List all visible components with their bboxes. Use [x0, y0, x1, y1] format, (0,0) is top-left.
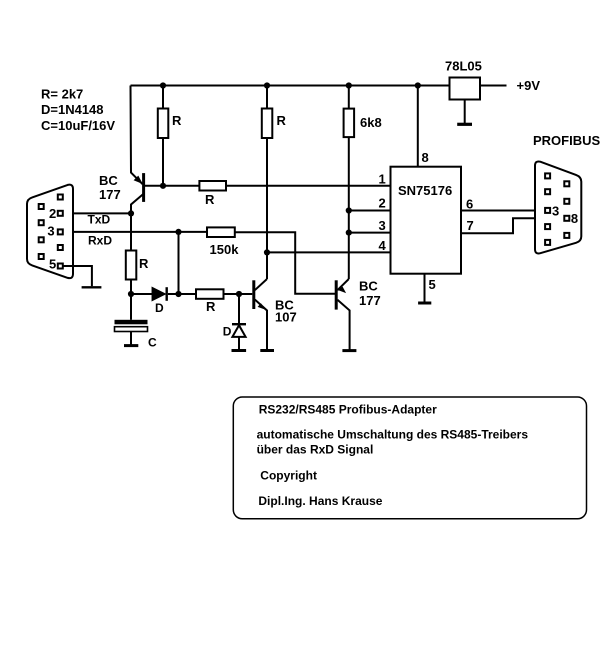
resistor R3 6k8 body: [344, 109, 355, 138]
J1 pin 5 hole: [58, 264, 63, 269]
wire: RxD junction down to diode line: [178, 232, 180, 294]
connector J1 DB9 outline: [27, 185, 73, 279]
svg-text:2: 2: [379, 196, 386, 211]
svg-text:BC: BC: [359, 279, 378, 294]
wire: pin 8 supply: [417, 86, 419, 167]
svg-text:4: 4: [379, 238, 387, 253]
junction: TxD/Q1 collector: [128, 210, 134, 216]
svg-text:C: C: [148, 336, 157, 350]
svg-text:3: 3: [47, 224, 54, 239]
resistor R4 body (pin1 line): [199, 181, 226, 191]
transistor Q2 emitter arrow: [258, 303, 267, 310]
svg-text:Dipl.Ing. Hans Krause: Dipl.Ing. Hans Krause: [258, 494, 382, 508]
svg-text:78L05: 78L05: [445, 59, 482, 74]
J1 pin 1 hole: [58, 195, 63, 200]
svg-text:5: 5: [429, 277, 436, 292]
wire: pin 1 line right segment: [226, 185, 391, 187]
junction: rail/R2: [264, 82, 270, 88]
svg-text:über das RxD Signal: über das RxD Signal: [257, 443, 374, 457]
J2 pin 4 hole: [545, 224, 550, 229]
svg-text:SN75176: SN75176: [398, 183, 452, 198]
wire: chip pin 6 to PROFIBUS pin3: [461, 210, 545, 212]
wire: RxD from DB9 pin3: [63, 231, 207, 233]
ground: C1: [124, 344, 138, 347]
svg-text:R= 2k7: R= 2k7: [41, 87, 83, 102]
ground: Q3 collector: [342, 349, 356, 352]
connector J2 PROFIBUS DB9 outline: [535, 161, 581, 253]
svg-text:R: R: [172, 113, 182, 128]
J1 pin 9 hole: [39, 254, 44, 259]
transistor Q3 emitter diagonal: [337, 279, 348, 290]
transistor Q3 collector diagonal: [337, 300, 349, 350]
J2 pin 2 hole: [545, 189, 550, 194]
wire: chip pin 3: [349, 232, 391, 234]
resistor R6 150k body: [207, 227, 235, 237]
resistor R1 body: [158, 109, 169, 139]
wire: D1 cathode to R7: [168, 293, 196, 295]
svg-text:D: D: [155, 301, 164, 315]
resistor R5 body: [126, 251, 137, 280]
svg-text:R: R: [139, 256, 149, 271]
svg-text:177: 177: [99, 187, 121, 202]
svg-text:RS232/RS485 Profibus-Adapter: RS232/RS485 Profibus-Adapter: [259, 402, 437, 416]
wire: 150k to Q3 base (corner): [235, 232, 335, 294]
svg-text:PROFIBUS: PROFIBUS: [533, 133, 601, 148]
wire: left rail down to Q1 emitter: [131, 86, 143, 185]
wire: chip pin 2: [349, 210, 391, 212]
wire: TxD from DB9 pin2: [63, 212, 131, 214]
svg-text:177: 177: [359, 293, 381, 308]
J1 pin 7 hole: [39, 220, 44, 225]
svg-text:D=1N4148: D=1N4148: [41, 102, 104, 117]
J1 pin 4 hole: [58, 245, 63, 250]
J1 pin 2 hole: [58, 211, 63, 216]
svg-text:D: D: [223, 325, 232, 339]
wire: 78L05 output to +9V: [480, 85, 507, 87]
svg-text:BC: BC: [99, 173, 118, 188]
junction: rail/R1: [160, 82, 166, 88]
J2 pin 3 hole: [545, 208, 550, 213]
J1 pin 6 hole: [39, 204, 44, 209]
resistor R1 vertical wires: [162, 86, 164, 109]
wire: TxD junction down through R5: [130, 213, 132, 250]
J2 pin 5 hole: [545, 240, 550, 245]
J2 pin 6 hole: [564, 181, 569, 186]
wire: chip pin 5 ground lead: [424, 274, 426, 302]
svg-text:5: 5: [49, 257, 56, 272]
junction: rail/pin8: [415, 82, 421, 88]
wire: pin 1 line left segment: [144, 185, 200, 187]
ground: J1 pin5: [82, 286, 102, 288]
capacitor C1 top plate: [115, 320, 148, 325]
wire: capacitor C1 top lead: [130, 294, 132, 320]
transistor Q2 emitter diagonal: [255, 300, 267, 350]
ground: chip pin 5: [418, 302, 431, 305]
wire: chip pin 7 to PROFIBUS pin8: [461, 218, 564, 233]
svg-text:6k8: 6k8: [360, 115, 382, 130]
transistor Q3 emitter arrow: [337, 287, 346, 294]
svg-text:3: 3: [552, 204, 559, 219]
resistor R7 body: [196, 289, 224, 299]
svg-text:R: R: [206, 299, 216, 314]
svg-text:automatische Umschaltung des R: automatische Umschaltung des RS485-Treib…: [257, 427, 529, 441]
svg-text:1: 1: [379, 172, 386, 187]
svg-text:107: 107: [275, 310, 297, 325]
ground: 78L05: [457, 123, 472, 126]
svg-text:8: 8: [422, 150, 429, 165]
junction: Q2 base / D2: [236, 291, 242, 297]
junction: pin4/Q2 collector: [264, 249, 270, 255]
wire: J1 pin5 to ground: [63, 266, 92, 286]
J1 pin 3 hole: [58, 229, 63, 234]
resistor R2 vertical wires: [266, 86, 268, 109]
J2 pin 7 hole: [564, 199, 569, 204]
svg-text:2: 2: [49, 206, 56, 221]
wire: node D1 to diode: [131, 293, 152, 295]
transistor Q1 BC177 base bar: [142, 173, 145, 202]
hole template: J1 left DB9 pins: [39, 173, 570, 268]
wire: capacitor C1 bottom lead: [130, 332, 132, 345]
wire: R5 to node D1: [130, 280, 132, 295]
svg-text:C=10uF/16V: C=10uF/16V: [41, 118, 115, 133]
wire: D2 to ground: [238, 337, 240, 350]
wire: D2 anode column: [238, 294, 240, 323]
transistor Q1 collector diagonal: [131, 194, 144, 214]
J2 pin 1 hole: [545, 173, 550, 178]
transistor Q3 BC177 base bar: [335, 280, 338, 309]
junction: pin3/6k8: [346, 230, 352, 236]
resistor R3 6k8 wires: [348, 86, 350, 109]
resistor R2 body: [262, 109, 273, 139]
J1 pin 8 hole: [39, 237, 44, 242]
title box: [233, 397, 586, 519]
svg-text:150k: 150k: [210, 242, 240, 257]
junction: pin2/6k8: [346, 207, 352, 213]
transistor Q2 collector diagonal: [255, 279, 267, 290]
svg-text:+9V: +9V: [517, 78, 541, 93]
IC U1 SN75176 body: [391, 167, 462, 274]
diode D2 cathode bar: [232, 323, 246, 325]
svg-text:RxD: RxD: [88, 233, 112, 247]
wire: R7 to Q2 base: [224, 293, 253, 295]
svg-text:7: 7: [467, 218, 474, 233]
diode D2 triangle: [232, 325, 245, 337]
J2 pin 9 hole: [564, 233, 569, 238]
diode D1 triangle: [152, 288, 165, 301]
svg-text:3: 3: [379, 218, 386, 233]
transistor Q2 BC107 base bar: [252, 280, 255, 309]
svg-text:TxD: TxD: [88, 213, 111, 227]
regulator U2 78L05 body: [450, 78, 481, 100]
wire: 78L05 ground lead: [464, 100, 466, 124]
transistor Q1 emitter arrow: [134, 176, 143, 184]
junction: node D1 right: [175, 291, 181, 297]
diode D1 cathode bar: [165, 287, 167, 301]
wire: +9V top rail: [131, 85, 450, 87]
svg-text:6: 6: [466, 196, 473, 211]
junction: node D1 left: [128, 291, 134, 297]
wire: chip pin 4: [267, 251, 391, 253]
capacitor C1 bottom plate: [115, 327, 148, 332]
junction: pin1/R1: [160, 183, 166, 189]
svg-text:R: R: [277, 113, 287, 128]
J2 pin 8 hole: [564, 216, 569, 221]
ground: Q2 emitter: [260, 349, 274, 352]
ground: D2: [232, 349, 247, 352]
junction: RxD/divider: [175, 229, 181, 235]
svg-text:Copyright: Copyright: [260, 469, 317, 483]
junction: rail/6k8: [346, 82, 352, 88]
svg-text:8: 8: [571, 211, 578, 226]
svg-text:R: R: [205, 192, 215, 207]
